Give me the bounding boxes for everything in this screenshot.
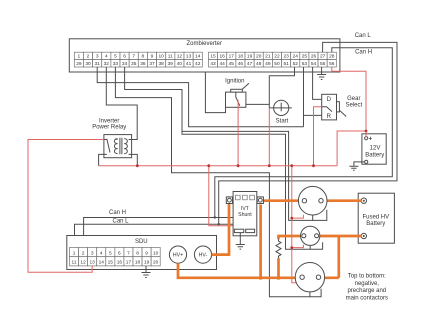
svg-text:negative,: negative, xyxy=(355,281,380,287)
wire precharge contactor coil feed xyxy=(182,131,310,249)
svg-text:HV-: HV- xyxy=(199,253,208,259)
red wire SDU pin13 to relay input xyxy=(28,140,104,273)
svg-text:21: 21 xyxy=(265,54,271,60)
12V battery BT1 xyxy=(349,134,386,170)
svg-text:34: 34 xyxy=(122,61,128,67)
svg-text:Can H: Can H xyxy=(109,210,126,216)
orange IVT shunt right terminal down to HV+ bus xyxy=(259,205,263,280)
wire pin53 to gear select R terminal xyxy=(304,67,327,127)
svg-text:Power Relay: Power Relay xyxy=(92,125,126,131)
SDU HV+ terminal xyxy=(169,246,186,263)
orange negative contactor to fused HV battery positive xyxy=(322,199,361,202)
svg-text:6: 6 xyxy=(123,54,126,60)
net Can L : pin27 to right side down to SDU pin1 and IVT shunt xyxy=(75,42,398,247)
SDU HV- terminal xyxy=(194,246,211,263)
svg-text:16: 16 xyxy=(117,260,123,266)
wire pin52 to start button xyxy=(269,67,294,108)
svg-text:Can L: Can L xyxy=(112,218,129,224)
svg-text:36: 36 xyxy=(140,61,146,67)
red wire rail to gear select common xyxy=(314,107,322,166)
svg-text:13: 13 xyxy=(186,54,192,60)
svg-text:38: 38 xyxy=(158,61,164,67)
red wire rail to IVT shunt power connector xyxy=(209,166,236,230)
svg-text:12: 12 xyxy=(177,54,183,60)
orange precharge line resistor to precharge contactor xyxy=(279,236,303,239)
red wire rail to contactor coils xyxy=(292,166,304,283)
svg-text:30: 30 xyxy=(85,61,91,67)
Zombieverter left connector pin rows pins 1-14 and 29-42 xyxy=(74,52,202,67)
svg-text:12V: 12V xyxy=(370,145,381,151)
svg-text:16: 16 xyxy=(220,54,226,60)
svg-text:15: 15 xyxy=(108,260,114,266)
svg-text:20: 20 xyxy=(153,260,159,266)
svg-text:3: 3 xyxy=(96,54,99,60)
svg-text:IVT: IVT xyxy=(241,206,250,212)
red wire start button to rail xyxy=(268,108,270,166)
SDU pin rows pins 1-10 and 11-20 xyxy=(70,248,161,266)
svg-text:Inverter: Inverter xyxy=(99,118,119,124)
ground at IVT shunt xyxy=(236,233,245,250)
svg-text:45: 45 xyxy=(229,61,235,67)
svg-text:31: 31 xyxy=(94,61,100,67)
svg-text:22: 22 xyxy=(274,54,280,60)
svg-text:51: 51 xyxy=(283,61,289,67)
svg-text:26: 26 xyxy=(311,54,317,60)
svg-text:9: 9 xyxy=(145,251,148,257)
svg-text:17: 17 xyxy=(229,54,235,60)
precharge resistor R1 xyxy=(276,239,281,258)
svg-text:33: 33 xyxy=(113,61,119,67)
svg-text:5: 5 xyxy=(114,54,117,60)
svg-text:15: 15 xyxy=(210,54,216,60)
svg-text:2: 2 xyxy=(82,251,85,257)
svg-text:48: 48 xyxy=(256,61,262,67)
svg-text:37: 37 xyxy=(149,61,155,67)
main contactor K4 xyxy=(295,263,324,297)
svg-text:Can H: Can H xyxy=(355,49,372,55)
inverter power relay K1 xyxy=(92,118,131,157)
wire pin34 to negative contactor coil xyxy=(125,67,313,220)
note contactor order xyxy=(346,274,388,302)
orange tie precharge line down to HV+ bus xyxy=(337,236,340,278)
orange IVT shunt right terminal to negative contactor xyxy=(263,199,303,202)
wire connector gap to ignition switch input xyxy=(205,72,225,113)
svg-text:8: 8 xyxy=(142,54,145,60)
svg-text:main contactors: main contactors xyxy=(346,295,388,301)
svg-text:D: D xyxy=(327,97,332,103)
svg-text:4: 4 xyxy=(105,54,108,60)
svg-text:32: 32 xyxy=(104,61,110,67)
wire pin31 to pin53/R node (control loop) xyxy=(97,67,303,127)
wire relay lower-left terminal to 12V rail xyxy=(99,154,104,165)
Zombieverter U1 outer box xyxy=(69,39,340,72)
orange resistor bottom to HV+ bus xyxy=(277,258,281,280)
svg-text:18: 18 xyxy=(135,260,141,266)
svg-text:10: 10 xyxy=(153,251,159,257)
svg-text:17: 17 xyxy=(126,260,132,266)
Zombieverter right connector pin rows pins 15-28 and 43-56 xyxy=(209,52,337,67)
svg-text:28: 28 xyxy=(329,54,335,60)
svg-text:47: 47 xyxy=(247,61,253,67)
svg-text:25: 25 xyxy=(302,54,308,60)
ground at pin55 xyxy=(317,67,326,80)
IVT shunt current sensor xyxy=(226,192,263,236)
ignition switch S1 xyxy=(225,79,249,108)
svg-text:5: 5 xyxy=(109,251,112,257)
svg-text:Fused HV: Fused HV xyxy=(362,214,389,220)
svg-text:19: 19 xyxy=(144,260,150,266)
wire pin32 to inverter power relay coil xyxy=(106,67,137,140)
svg-text:41: 41 xyxy=(186,61,192,67)
wire relay lower-right terminal to 12V rail xyxy=(132,154,138,165)
svg-text:46: 46 xyxy=(238,61,244,67)
12V red rail xyxy=(99,165,338,167)
svg-text:27: 27 xyxy=(320,54,326,60)
svg-text:19: 19 xyxy=(247,54,253,60)
svg-text:56: 56 xyxy=(329,61,335,67)
svg-text:precharge and: precharge and xyxy=(347,288,386,294)
svg-text:7: 7 xyxy=(132,54,135,60)
SDU inverter box xyxy=(67,236,217,270)
svg-text:12: 12 xyxy=(80,260,86,266)
svg-text:Select: Select xyxy=(345,102,362,108)
negative contactor K2 xyxy=(298,186,327,220)
wire ignition output to start button node xyxy=(246,103,269,105)
svg-text:49: 49 xyxy=(265,61,271,67)
svg-text:Can L: Can L xyxy=(355,33,372,39)
net Can H : pin28 to right side down to SDU pin2 and IVT shunt xyxy=(84,48,393,248)
svg-text:23: 23 xyxy=(283,54,289,60)
svg-text:50: 50 xyxy=(274,61,280,67)
orange precharge contactor to fused HV battery negative xyxy=(318,235,361,238)
svg-text:6: 6 xyxy=(118,251,121,257)
svg-text:43: 43 xyxy=(210,61,216,67)
svg-text:11: 11 xyxy=(72,260,77,266)
svg-text:7: 7 xyxy=(127,251,130,257)
svg-text:8: 8 xyxy=(136,251,139,257)
svg-text:55: 55 xyxy=(320,61,326,67)
svg-text:R: R xyxy=(327,114,332,120)
svg-text:11: 11 xyxy=(168,54,173,60)
svg-text:Gear: Gear xyxy=(347,96,360,102)
svg-text:44: 44 xyxy=(220,61,226,67)
svg-text:1: 1 xyxy=(73,251,76,257)
svg-text:Zombieverter: Zombieverter xyxy=(187,41,222,47)
wire pin54 to gear select D terminal xyxy=(313,67,326,99)
svg-text:Ignition: Ignition xyxy=(225,79,244,85)
svg-text:Top to bottom:: Top to bottom: xyxy=(348,274,386,280)
svg-text:13: 13 xyxy=(89,260,95,266)
junction dots on red nets xyxy=(136,130,367,249)
fused HV battery BT2 xyxy=(358,193,394,243)
start button S2 xyxy=(269,100,292,124)
svg-text:24: 24 xyxy=(293,54,299,60)
svg-text:53: 53 xyxy=(302,61,308,67)
svg-text:35: 35 xyxy=(131,61,137,67)
svg-text:HV+: HV+ xyxy=(173,253,183,259)
precharge contactor K3 xyxy=(301,226,323,249)
svg-text:Shunt: Shunt xyxy=(238,212,252,218)
svg-text:18: 18 xyxy=(238,54,244,60)
ground at SDU pins 18-19 xyxy=(142,266,151,278)
wire pin33 to main contactor coil xyxy=(115,67,310,297)
svg-text:52: 52 xyxy=(293,61,299,67)
svg-text:Battery: Battery xyxy=(365,152,384,158)
svg-text:20: 20 xyxy=(256,54,262,60)
gear select switch S3 xyxy=(322,94,363,120)
svg-text:14: 14 xyxy=(99,260,105,266)
red wire pin56 to 12V battery positive xyxy=(332,67,366,166)
svg-text:Start: Start xyxy=(276,119,289,125)
svg-text:9: 9 xyxy=(151,54,154,60)
svg-text:14: 14 xyxy=(195,54,201,60)
svg-text:1: 1 xyxy=(78,54,81,60)
svg-text:29: 29 xyxy=(76,61,82,67)
red wire ignition switch to rail xyxy=(237,100,239,166)
svg-text:39: 39 xyxy=(168,61,174,67)
orange HV- to IVT shunt left terminal xyxy=(212,204,229,255)
svg-text:3: 3 xyxy=(91,251,94,257)
svg-text:4: 4 xyxy=(100,251,103,257)
svg-text:40: 40 xyxy=(177,61,183,67)
svg-text:SDU: SDU xyxy=(135,239,148,245)
svg-text:Battery: Battery xyxy=(366,221,385,227)
svg-text:54: 54 xyxy=(311,61,317,67)
svg-text:10: 10 xyxy=(158,54,164,60)
svg-text:2: 2 xyxy=(87,54,90,60)
svg-text:+: + xyxy=(369,137,373,143)
orange HV+ bus to main contactor xyxy=(178,263,339,278)
svg-text:42: 42 xyxy=(195,61,201,67)
